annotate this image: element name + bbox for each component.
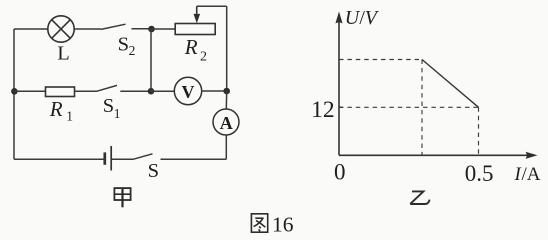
svg-text:0.5: 0.5: [465, 161, 494, 186]
dashed line U=12 horizontal: [339, 106, 479, 108]
node junction middle: [148, 88, 155, 95]
svg-text:L: L: [57, 43, 70, 65]
label 甲: [114, 188, 130, 207]
node junction middle-left: [11, 88, 18, 95]
wire voltmeter to right junction: [202, 90, 227, 92]
svg-text:R: R: [49, 97, 63, 121]
wire junction to voltmeter: [151, 90, 174, 92]
svg-text:1: 1: [114, 106, 121, 121]
wire bottom right segment: [161, 158, 227, 160]
wire wiper top horizontal: [197, 5, 227, 7]
y-axis U/V: [338, 20, 340, 155]
svg-text:/A: /A: [522, 164, 541, 185]
switch S: [112, 154, 153, 160]
wire left to R1: [14, 90, 46, 92]
wire vertical connector S2-S1: [150, 29, 152, 91]
svg-text:0: 0: [334, 160, 346, 185]
svg-text:U: U: [345, 7, 361, 29]
svg-text:V: V: [182, 82, 195, 102]
svg-text:S: S: [118, 34, 129, 56]
wire ammeter to bottom: [225, 135, 227, 159]
battery: [105, 146, 111, 171]
svg-text:12: 12: [311, 97, 335, 123]
wire right vertical: [226, 6, 228, 91]
voltmeter V: [174, 77, 201, 104]
curve U-I: [422, 60, 479, 108]
node junction right: [223, 88, 230, 95]
wire R1 to S1: [75, 90, 97, 92]
svg-text:2: 2: [200, 49, 207, 64]
wire lamp to S2: [74, 28, 101, 30]
switch S1: [96, 85, 151, 91]
ammeter A: [213, 109, 239, 135]
switch S2: [101, 24, 152, 29]
lamp L: [48, 16, 74, 42]
svg-text:16: 16: [272, 213, 294, 237]
wire left vertical: [13, 29, 15, 159]
label 图 16: [251, 214, 267, 232]
wire top-left to lamp: [14, 28, 48, 30]
label 乙: [411, 191, 430, 204]
wire bottom left segment: [14, 158, 105, 160]
dashed line I=0.3 vertical: [421, 60, 423, 156]
x-axis I/A: [339, 154, 529, 156]
resistor R1: [46, 87, 75, 97]
tick at 12: [339, 106, 343, 108]
svg-text:2: 2: [129, 43, 136, 58]
wire junction to ammeter: [225, 91, 227, 109]
dashed line U=18 horizontal: [339, 59, 422, 61]
wire junction to R2: [152, 28, 176, 30]
dashed line I=0.5 vertical: [478, 107, 480, 155]
svg-text:S: S: [103, 95, 114, 117]
svg-text:R: R: [184, 35, 198, 59]
node junction top: [148, 26, 155, 33]
svg-text:S: S: [148, 160, 159, 182]
rheostat R2: [175, 6, 215, 34]
svg-text:V: V: [365, 7, 380, 29]
svg-text:1: 1: [66, 108, 73, 123]
svg-text:A: A: [220, 113, 233, 133]
